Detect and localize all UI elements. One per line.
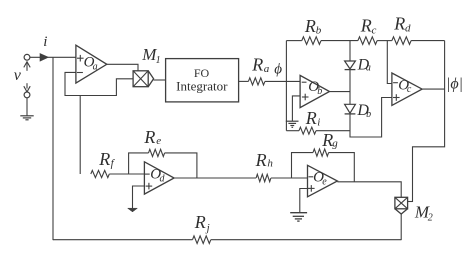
svg-text:b: b: [317, 86, 322, 97]
wire: O_a feedback loop (- input to M1 left): [65, 72, 133, 95]
op-amp O_d: [144, 162, 174, 194]
wire: R_i to diode chain: [316, 130, 350, 132]
label Rh: [255, 150, 274, 170]
resistor Rf: [91, 170, 110, 177]
wire: phi node to R_i: [286, 130, 299, 132]
label Rj: [194, 212, 210, 234]
label Rc: [360, 16, 377, 37]
svg-text:R: R: [360, 16, 372, 36]
wire: O_b output to diode chain: [330, 91, 351, 93]
svg-text:b: b: [316, 25, 322, 37]
label Ri: [305, 108, 321, 128]
wire: Da to O_b output node: [349, 70, 351, 105]
svg-text:2: 2: [428, 212, 433, 223]
wire: junction down to diode Da: [349, 41, 351, 61]
wire: R_a to O_b - input (node phi): [265, 80, 300, 82]
svg-text:e: e: [156, 135, 161, 147]
resistor Rb: [302, 37, 321, 45]
wire: O_b + input to ground: [292, 96, 300, 121]
op-amp O_b: [300, 75, 329, 107]
wire: M2 output down to bottom rail: [400, 214, 402, 240]
op-amp O_a: [76, 45, 107, 83]
svg-text:d: d: [405, 23, 411, 35]
resistor Re: [149, 149, 165, 156]
voltage arrow up: [24, 62, 30, 71]
wire: feedback node down to R_f: [79, 96, 81, 175]
svg-text:a: a: [264, 63, 270, 75]
input port terminal (top): [24, 54, 30, 60]
wire: O_e output to M2 top: [337, 182, 401, 198]
wire: R_f to O_d - input: [109, 173, 144, 175]
ground arrow (O_d): [128, 208, 138, 212]
resistor Ri: [299, 127, 316, 134]
resistor Rc: [358, 37, 377, 45]
label Re: [143, 127, 161, 147]
wire: R_g loop: [292, 153, 355, 182]
wire: O_e + input to ground: [300, 189, 308, 213]
wire: node phi up to top rail: [285, 41, 287, 82]
svg-text:R: R: [194, 212, 206, 232]
label |phi| output: [446, 76, 463, 93]
svg-text:R: R: [393, 14, 405, 34]
label Rd: [393, 14, 411, 35]
wire: top rail segment 4 (Rd to output rail): [411, 40, 445, 42]
ground (O_e): [290, 213, 307, 221]
multiplier M2: [395, 197, 408, 214]
wire: junction down to O_c - input: [387, 41, 392, 84]
wire: O_c output to |phi| rail: [422, 88, 445, 90]
wire: O_d + input to arrow ground: [133, 186, 145, 208]
resistor Rh: [256, 174, 271, 181]
svg-text:R: R: [255, 150, 267, 170]
wire: bottom terminal to ground: [26, 98, 28, 116]
input port terminal (bottom): [24, 92, 30, 98]
FO integrator block: [166, 59, 239, 102]
label Db: [356, 102, 371, 120]
label Rf: [98, 149, 115, 169]
label Ra: [251, 55, 270, 75]
voltage arrow down: [24, 83, 30, 92]
wire: node phi down to R_i: [285, 81, 287, 130]
wire: R_h to O_e - input: [271, 177, 308, 179]
svg-text:h: h: [267, 157, 273, 169]
svg-text:|ϕ|: |ϕ|: [446, 76, 463, 93]
svg-text:a: a: [366, 63, 371, 74]
svg-text:i: i: [317, 117, 320, 129]
resistor Rj: [193, 236, 211, 244]
wire: Db bottom to O_c + input: [350, 98, 392, 138]
diode Db: [345, 104, 356, 114]
label M2: [414, 203, 433, 224]
resistor Ra: [248, 78, 265, 85]
wire: output rail down to M2: [408, 41, 445, 202]
svg-text:R: R: [143, 127, 155, 147]
svg-text:R: R: [98, 149, 110, 169]
op-amp O_e: [308, 165, 338, 197]
svg-text:R: R: [304, 16, 316, 36]
label Rb: [304, 16, 322, 37]
resistor Rd: [392, 37, 411, 45]
label M1: [141, 45, 160, 66]
wire: FO output to R_a: [239, 80, 249, 82]
svg-text:Integrator: Integrator: [176, 79, 228, 94]
wire: M1 output to FO integrator: [154, 79, 166, 81]
label phi (node): [274, 62, 282, 78]
diode Da: [345, 61, 356, 70]
svg-text:i: i: [43, 34, 47, 50]
label i: [43, 34, 47, 50]
wire: bottom rail right segment: [211, 239, 401, 241]
wire: top rail segment 1: [286, 40, 301, 42]
svg-text:v: v: [14, 67, 22, 84]
svg-text:R: R: [251, 55, 263, 75]
wire: O_d output row: [174, 177, 256, 179]
svg-text:R: R: [305, 108, 317, 128]
op-amp O_c: [392, 73, 422, 105]
svg-text:g: g: [332, 137, 338, 149]
current arrow i: [40, 54, 48, 62]
wire: left rail (input node to bottom rail): [52, 57, 54, 240]
svg-text:c: c: [407, 84, 412, 95]
label Rg: [321, 130, 338, 150]
svg-text:1: 1: [156, 55, 161, 66]
wire: M2 right side to output rail: [408, 201, 413, 203]
ground (source): [20, 116, 33, 120]
svg-text:ϕ: ϕ: [274, 62, 282, 78]
svg-text:e: e: [322, 177, 327, 188]
label v: [14, 67, 22, 84]
resistor Rg: [313, 149, 329, 156]
wire: R_e loop: [129, 153, 197, 178]
wire: top rail segment 3 (Rc to Rd): [377, 40, 392, 42]
svg-text:b: b: [366, 109, 371, 120]
svg-text:c: c: [372, 24, 377, 36]
multiplier M1: [133, 71, 154, 87]
wire: input row to op-amp O_a: [30, 56, 76, 58]
wire: O_a output to M1 top: [107, 64, 138, 71]
svg-text:a: a: [93, 62, 98, 73]
wire: top rail segment 2 (Rb to diode node): [321, 40, 358, 42]
wire: bottom rail left segment: [53, 239, 193, 241]
label Da: [357, 56, 371, 73]
ground (O_b): [286, 121, 299, 127]
